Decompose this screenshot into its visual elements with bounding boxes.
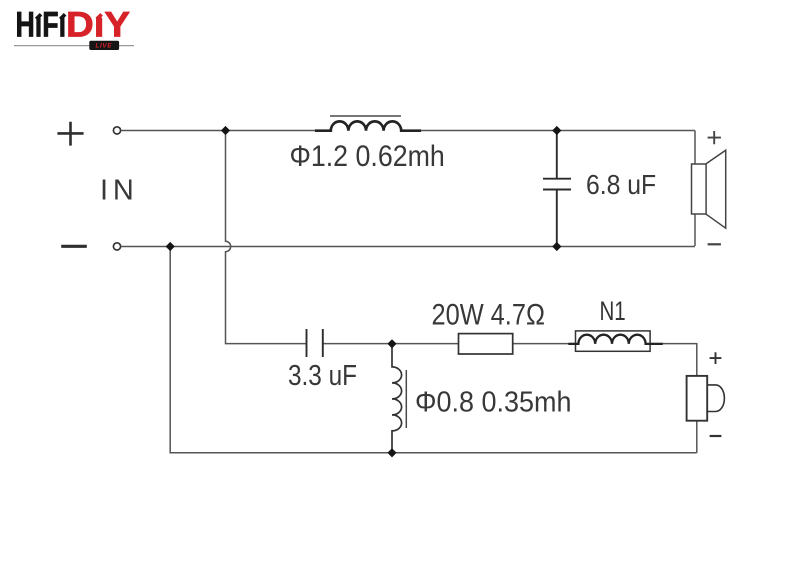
svg-text:Φ1.2 0.62mh: Φ1.2 0.62mh: [290, 139, 445, 173]
svg-text:HıFı: HıFı: [16, 6, 67, 45]
svg-text:3.3 uF: 3.3 uF: [288, 359, 357, 391]
svg-text:N1: N1: [600, 296, 626, 326]
svg-text:20W 4.7Ω: 20W 4.7Ω: [432, 298, 545, 331]
svg-text:6.8 uF: 6.8 uF: [586, 169, 656, 201]
svg-text:LIVE: LIVE: [96, 43, 113, 50]
svg-text:DıY: DıY: [66, 6, 130, 45]
svg-text:IN: IN: [100, 174, 139, 206]
svg-text:Φ0.8 0.35mh: Φ0.8 0.35mh: [415, 385, 571, 417]
